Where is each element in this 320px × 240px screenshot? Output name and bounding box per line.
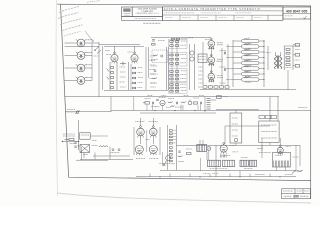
svg-text:32TR-A COMPLETE TRANSMITTER: 32TR-A COMPLETE TRANSMITTER TYPE SCHEMAT… bbox=[164, 8, 260, 11]
power input label bbox=[63, 134, 75, 136]
resistor audio 5 bbox=[194, 102, 198, 104]
relay K2 box dense bbox=[197, 145, 207, 152]
resistor filter row 2 bbox=[244, 43, 250, 45]
wire bbox=[200, 158, 202, 171]
coupling marks bbox=[120, 62, 126, 66]
resistor group 3 row 3 bbox=[170, 78, 173, 80]
capacitor filter 1 bbox=[112, 149, 114, 150]
resistor group 3 row 1 bbox=[170, 71, 173, 73]
T3 side label bbox=[293, 156, 299, 158]
capacitor audio 1 bbox=[153, 102, 154, 104]
resistor group 2 row 3 bbox=[170, 63, 173, 65]
group 2 row 1 label bbox=[180, 54, 186, 56]
resistor group 2 row 1 bbox=[170, 54, 173, 56]
pin marks V2 bbox=[76, 52, 86, 53]
handwritten pencil note line 1 bbox=[59, 6, 80, 12]
wire to tube V4 bbox=[65, 80, 78, 82]
wire bbox=[77, 120, 79, 150]
wire filter row 2 out bbox=[259, 46, 264, 48]
rectifier label bbox=[92, 145, 98, 147]
label above chokes bbox=[257, 148, 263, 150]
label left of T3 bbox=[259, 152, 265, 154]
wire through ladder right bbox=[176, 40, 178, 92]
transformer T2 power bbox=[208, 160, 221, 166]
capacitor group 4 row 3 bbox=[175, 90, 178, 92]
PA type label 1 bbox=[136, 158, 145, 160]
resistor filter row 4 bbox=[244, 54, 250, 56]
resistor output 2b bbox=[286, 60, 290, 62]
PA ladder label 1 bbox=[173, 129, 176, 131]
title strip cell entry appr bbox=[254, 17, 261, 19]
group 1 row 1 label bbox=[181, 40, 187, 42]
wire bbox=[116, 62, 118, 90]
filter row 7 label bbox=[245, 76, 252, 78]
revision table bbox=[282, 189, 311, 199]
wire bbox=[269, 97, 271, 122]
line cap label bbox=[92, 140, 97, 142]
top small group caps bbox=[152, 40, 156, 46]
title strip cell entry checked bbox=[182, 17, 190, 19]
capacitor PA ladder 4 bbox=[169, 157, 172, 159]
wire filter row 7 out bbox=[259, 73, 264, 75]
capacitor group 4 row 1 bbox=[175, 84, 178, 86]
resistor PA ladder 1 bbox=[169, 130, 172, 132]
wire tick to bottom bus bbox=[269, 174, 271, 177]
value label 5 bbox=[120, 86, 126, 88]
relay contact 2 bbox=[232, 123, 238, 125]
wire bbox=[216, 95, 222, 97]
capacitor group 3 row 2 bbox=[175, 74, 178, 76]
T3 side label 2 bbox=[295, 170, 302, 172]
junction dot filter row 5 bbox=[263, 62, 264, 63]
PA ladder label 2 bbox=[173, 132, 176, 134]
wire to tube V1 bbox=[65, 42, 78, 44]
wire filter row 5 out bbox=[259, 62, 264, 64]
junction dots bottom bus bbox=[159, 176, 280, 177]
parasitic suppressor loop row 8 bbox=[242, 78, 260, 81]
junction dot filter row 1 bbox=[263, 40, 264, 41]
label V8 bbox=[217, 43, 223, 45]
wire bbox=[109, 62, 111, 90]
filter row 1 label bbox=[245, 43, 252, 45]
value label 1 bbox=[120, 66, 126, 68]
tube V4 crystal oscillator bbox=[77, 77, 85, 85]
resistor group 3 row 2 bbox=[170, 74, 173, 76]
resistor group 4 row 3 bbox=[170, 90, 173, 92]
text column row 7 bbox=[150, 82, 156, 84]
wire filter row 5 in bbox=[233, 62, 242, 64]
transformer T3 winding hatch bbox=[274, 161, 289, 167]
wire PA cap feed right bbox=[152, 118, 154, 126]
resistor R22 bbox=[152, 77, 157, 79]
audio stage label c bbox=[184, 95, 189, 97]
wire filter row 6 in bbox=[233, 68, 242, 70]
audio small label 1 bbox=[155, 106, 160, 108]
junction dot filter row 7 bbox=[263, 73, 264, 74]
tube V2 crystal oscillator bbox=[77, 52, 85, 60]
bottom small label a bbox=[203, 173, 209, 175]
terminal block 3 bbox=[295, 65, 299, 68]
group 4 row 3 label bbox=[181, 90, 187, 92]
relay box K1 bbox=[230, 113, 242, 143]
filter labels bbox=[110, 152, 119, 154]
wire bbox=[224, 126, 226, 144]
text column row 3 bbox=[150, 64, 156, 66]
pin marks V4 bbox=[76, 77, 86, 78]
wire tick to bottom bus bbox=[169, 174, 171, 177]
capacitor PA ladder 1 bbox=[169, 147, 172, 149]
wire tick audio b bbox=[180, 105, 182, 111]
wire bbox=[206, 152, 208, 160]
resistor group 2 row 2 bbox=[170, 58, 173, 60]
modulator label row bbox=[159, 163, 175, 165]
PA center mark bbox=[146, 139, 150, 141]
junction dot filter row 6 bbox=[263, 68, 264, 69]
wire bbox=[210, 48, 212, 56]
wire bbox=[114, 46, 116, 53]
parasitic suppressor loop row 3 bbox=[242, 50, 260, 53]
filter row 4 label bbox=[246, 59, 253, 61]
arrow mark into keying tube bbox=[164, 160, 167, 165]
relay contact 3 bbox=[232, 129, 238, 131]
socket pins V9 bbox=[209, 64, 215, 67]
label for V4 bbox=[86, 76, 92, 78]
wire bbox=[284, 45, 300, 47]
value label 4 bbox=[120, 81, 126, 83]
transformer T3 enclosure bbox=[273, 153, 291, 168]
resistor in V6 ladder 3 bbox=[133, 77, 136, 79]
audio group label bbox=[175, 106, 183, 108]
wire bbox=[92, 42, 99, 44]
component mark col 5 bbox=[199, 82, 204, 84]
wire bbox=[208, 151, 210, 161]
wire bbox=[261, 138, 263, 151]
component mark col 4 bbox=[198, 78, 203, 80]
resistor filter row 7 bbox=[244, 71, 250, 73]
resistor in V6 ladder 1 bbox=[133, 67, 136, 69]
resistor bias row 1 bbox=[203, 86, 207, 88]
title strip cell entry date bbox=[200, 17, 208, 19]
value label V6 ladder 1 bbox=[138, 67, 143, 69]
socket pins V10 bbox=[209, 80, 215, 83]
meter M1 bbox=[207, 147, 211, 151]
wire filter row 1 out bbox=[259, 40, 264, 42]
V16 socket label bbox=[223, 155, 231, 157]
audio group 1 label bbox=[145, 98, 151, 100]
filter row 2 label bbox=[245, 48, 252, 50]
wire from tube V3 bbox=[85, 67, 92, 69]
resistor mod 1 bbox=[178, 155, 183, 157]
value label V6 ladder 4 bbox=[138, 82, 143, 84]
terminal strip small boxes bbox=[259, 116, 277, 119]
connector P1 pin column bbox=[207, 99, 211, 110]
wire bbox=[280, 52, 282, 56]
value label V6 ladder 2 bbox=[138, 72, 143, 74]
label for V1 bbox=[87, 39, 93, 41]
wire bbox=[62, 140, 79, 142]
choke L3 box bbox=[187, 153, 192, 155]
resistor bias row 5 bbox=[225, 86, 229, 88]
capacitor group 4 row 2 bbox=[175, 87, 178, 89]
wire bbox=[93, 155, 130, 157]
wire to tube V3 bbox=[65, 67, 78, 69]
resistor output 1b bbox=[286, 53, 290, 55]
power switch box bbox=[80, 133, 91, 139]
V16 socket hatch bbox=[221, 155, 227, 158]
wire bbox=[221, 48, 223, 85]
wire terminal 1 bbox=[293, 44, 295, 46]
wire filter row 3 in bbox=[233, 51, 242, 53]
capacitor audio 6 bbox=[201, 102, 202, 104]
resistor PA ladder 5 bbox=[169, 143, 172, 145]
label right end of bus bbox=[298, 106, 307, 108]
wire PA cap feed left bbox=[140, 118, 142, 126]
stage group box 2 bbox=[169, 52, 187, 66]
revision table entry 1 bbox=[283, 190, 293, 192]
wire from tube V1 bbox=[85, 42, 92, 44]
svg-text:400 8047 005: 400 8047 005 bbox=[286, 9, 308, 13]
wire terminal 3 bbox=[293, 65, 295, 67]
bottom small label b bbox=[212, 173, 218, 175]
wire bbox=[166, 47, 168, 90]
resistor PA ladder 4 bbox=[169, 139, 172, 141]
capacitor line filter 2 bbox=[74, 146, 76, 147]
wire long bus under drivers bbox=[200, 89, 296, 91]
capacitor PA ladder 3 bbox=[169, 154, 172, 156]
wire bbox=[275, 52, 277, 56]
resistor filter row 5 bbox=[244, 60, 250, 62]
label for V3 bbox=[86, 64, 92, 66]
wire filter bank left bus bbox=[232, 40, 234, 87]
handwritten note above frame bbox=[87, 1, 100, 3]
handwritten pencil note line 2 bbox=[58, 12, 79, 18]
control box row 1 bbox=[261, 124, 277, 126]
group 4 row 1 label bbox=[180, 83, 186, 85]
wire vertical bus left bbox=[98, 42, 100, 97]
wire bbox=[216, 109, 259, 111]
resistor in V5 cathode ladder 4 bbox=[111, 82, 114, 84]
ground label bbox=[83, 154, 88, 156]
wire bbox=[211, 99, 217, 101]
left column junction bus bbox=[91, 43, 93, 81]
resistor in V6 ladder 2 bbox=[133, 72, 136, 74]
resistor PA ladder 3 bbox=[169, 136, 172, 138]
text column row 5 bbox=[150, 73, 156, 75]
parasitic suppressor loop row 7 bbox=[242, 72, 260, 75]
capacitor mod 1 bbox=[178, 151, 180, 152]
tube V9 driver bbox=[208, 54, 215, 65]
wire B+ bus horizontal bbox=[111, 96, 279, 98]
wire bbox=[168, 47, 170, 90]
wire tick audio a bbox=[152, 105, 154, 111]
group 2 row 3 label bbox=[180, 62, 186, 64]
wire bbox=[110, 97, 112, 113]
fuse F1 bbox=[65, 139, 75, 141]
resistor filter row 8 bbox=[244, 76, 250, 78]
handwritten pencil note line 5 bbox=[64, 31, 81, 36]
pencil arrow to first oscillator bbox=[85, 31, 94, 42]
label bbox=[151, 73, 158, 75]
switch S1 wafer marks bbox=[95, 47, 102, 54]
bottom bus label bbox=[255, 174, 265, 176]
wire lower bus bbox=[104, 89, 168, 91]
V11 label bbox=[159, 97, 166, 99]
drawing number box bbox=[283, 7, 311, 19]
top label b bbox=[181, 38, 187, 40]
output label bottom bbox=[285, 67, 291, 69]
revision table entry 2 bbox=[284, 195, 292, 197]
wire switch to rectifier bbox=[90, 135, 108, 137]
interstage box label bbox=[199, 57, 206, 60]
resistor filter row 3 bbox=[244, 49, 250, 51]
terminal label 1 bbox=[295, 49, 300, 51]
terminal block 1 bbox=[295, 44, 299, 47]
driver grid label 3 bbox=[220, 82, 226, 84]
label left of V8 bbox=[205, 39, 210, 41]
wire filter row 7 in bbox=[233, 73, 242, 75]
driver grid label 2 bbox=[219, 66, 225, 68]
wire bbox=[162, 152, 164, 166]
title strip row divider 2 bbox=[163, 14, 283, 16]
wire bbox=[210, 64, 212, 73]
label bbox=[151, 65, 157, 67]
transformer T2b power bbox=[223, 160, 235, 166]
parasitic suppressor loop row 4 bbox=[242, 56, 260, 59]
svg-text:COMPANY: COMPANY bbox=[141, 10, 153, 13]
filter row 3 label bbox=[246, 54, 253, 56]
tube V6 buffer bbox=[131, 52, 138, 64]
tube V10 driver bbox=[208, 71, 215, 82]
resistor filter row 6 bbox=[244, 65, 250, 67]
title strip second row note bbox=[165, 12, 195, 14]
parasitic suppressor loop row 5 bbox=[242, 61, 260, 64]
label group mid bbox=[151, 59, 158, 61]
resistor audio 4 bbox=[181, 101, 186, 103]
capacitor filter 2 bbox=[118, 149, 120, 150]
label antenna cap bbox=[266, 52, 271, 54]
junction dot bbox=[62, 141, 63, 142]
control box row 3 bbox=[261, 137, 277, 139]
parasitic suppressor loop row 2 bbox=[242, 45, 260, 48]
wire bbox=[133, 127, 135, 155]
wire filter row 4 out bbox=[259, 57, 264, 59]
value label V6 ladder 5 bbox=[138, 87, 143, 89]
pencil mark near T3 bbox=[292, 170, 303, 174]
wire bbox=[176, 125, 178, 170]
filter choke L5 bbox=[249, 160, 256, 166]
text column row 2 bbox=[150, 60, 156, 62]
title strip cell entry drawn by bbox=[165, 17, 173, 19]
tube V2 center dot bbox=[80, 55, 82, 57]
terminal label 2 bbox=[295, 59, 300, 61]
resistor group 4 row 1 bbox=[170, 84, 173, 86]
text column row 1 bbox=[150, 55, 156, 57]
wire tick to bottom bus bbox=[189, 174, 191, 177]
capacitor audio 1b bbox=[156, 99, 158, 100]
audio coupling group 1 bbox=[143, 102, 149, 105]
component mark col 6 bbox=[198, 86, 203, 88]
wire bbox=[225, 125, 270, 127]
wire bbox=[83, 153, 85, 159]
resistor in V6 ladder 5 bbox=[133, 87, 136, 89]
wire audio input bbox=[65, 111, 111, 113]
title block company box bbox=[132, 7, 162, 17]
tube V7 small double circle bbox=[190, 51, 194, 61]
group 2 row 2 label bbox=[181, 58, 187, 60]
wire bank link 4 bbox=[226, 79, 233, 81]
wire bbox=[277, 97, 279, 122]
wire top bus right bbox=[151, 37, 211, 39]
pin marks V1 bbox=[76, 39, 86, 40]
power switch label bbox=[81, 134, 89, 136]
wire bbox=[102, 46, 104, 90]
socket pins V8 bbox=[209, 47, 215, 50]
V17 socket label bbox=[275, 155, 282, 157]
resistor output 3 bbox=[286, 64, 290, 66]
T2 row labels bbox=[210, 167, 228, 169]
wire bbox=[65, 96, 111, 98]
terminal dots power bbox=[78, 141, 79, 147]
resistor R21 bbox=[153, 54, 158, 56]
wire bbox=[152, 137, 154, 144]
wire bank link 2 bbox=[226, 57, 233, 59]
wire bottom bus bbox=[136, 176, 296, 178]
capacitor driver 1 bbox=[225, 52, 226, 54]
capacitor line filter 1 bbox=[74, 142, 76, 143]
T2 label bbox=[220, 170, 230, 172]
text column row 8 bbox=[150, 86, 156, 88]
text column row 6 bbox=[150, 78, 156, 80]
wire tick audio c bbox=[200, 105, 202, 111]
PA ladder label 5 bbox=[174, 142, 177, 144]
control box row 2 bbox=[261, 131, 277, 133]
label V10 bbox=[217, 76, 223, 78]
resistor bias row 4 bbox=[220, 86, 224, 88]
wire bbox=[194, 44, 196, 90]
wire tick to bottom bus bbox=[149, 174, 151, 177]
handwritten pencil note line 4 bbox=[62, 25, 83, 31]
tube V8 driver bbox=[208, 38, 215, 49]
label V5 bbox=[106, 54, 111, 56]
tube V3 crystal oscillator bbox=[77, 64, 85, 72]
wire bbox=[104, 45, 144, 47]
resistor in V5 cathode ladder 3 bbox=[111, 77, 114, 79]
driver grid label 1 bbox=[220, 50, 226, 52]
capacitor driver 2 bbox=[225, 68, 226, 70]
wire bbox=[76, 159, 108, 161]
wire bbox=[167, 125, 169, 170]
capacitor C22 bbox=[154, 70, 156, 71]
V16 note bbox=[232, 151, 238, 153]
wire through ladder bbox=[171, 40, 173, 92]
wire bank link 1 bbox=[226, 46, 233, 48]
stage group box 4 bbox=[169, 83, 187, 94]
capacitor C21 bbox=[161, 55, 162, 57]
audio r label bbox=[168, 98, 174, 100]
wire bbox=[81, 147, 83, 160]
title block sub-row bbox=[122, 17, 163, 21]
label for V2 bbox=[86, 51, 92, 53]
revision table entry 1b bbox=[297, 190, 302, 192]
tube V3 center dot bbox=[80, 67, 82, 69]
drawing number box check mark bbox=[304, 16, 307, 19]
capacitor group 1 row 2 bbox=[175, 45, 178, 47]
filter choke L4 bbox=[240, 160, 248, 166]
junction dot filter row 8 bbox=[263, 79, 264, 80]
resistor bias row 2 bbox=[209, 86, 213, 88]
control box bbox=[259, 121, 279, 143]
tube V15 PA lower bbox=[149, 146, 157, 156]
